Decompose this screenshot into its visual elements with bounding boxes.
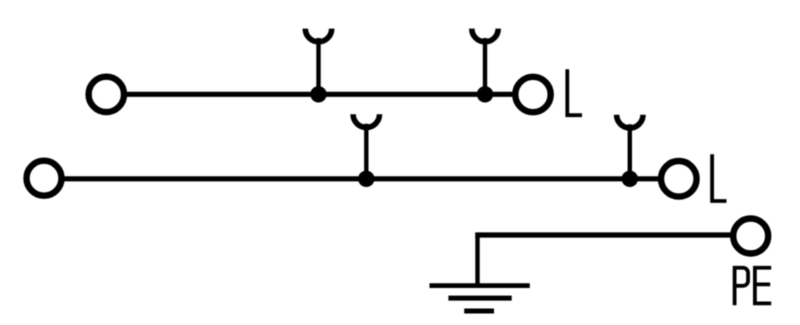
test socket TP1 — [305, 29, 331, 95]
junction dot row1 b — [477, 86, 493, 102]
junction dot row1 a — [310, 86, 326, 102]
terminal circle X3 (row 2 left) — [27, 161, 62, 196]
junction dot row2 b — [622, 171, 638, 187]
label PE — [735, 268, 772, 305]
junction dot row2 a — [358, 171, 374, 187]
label L (row 2) — [712, 154, 726, 201]
ground — [430, 286, 530, 311]
test socket TP2 — [472, 29, 498, 95]
terminal circle X4 (row 2 right) — [661, 161, 697, 197]
wire row 1 — [124, 92, 515, 97]
test socket TP3 — [353, 114, 379, 179]
wire row 2 — [62, 176, 662, 181]
terminal circle X2 (row 1 right) — [515, 77, 550, 112]
terminal circle X5 (PE) — [733, 219, 768, 254]
label L (row 1) — [567, 69, 582, 115]
terminal circle X1 (row 1 left) — [89, 77, 124, 112]
wire PE vertical — [475, 233, 479, 286]
test socket TP4 — [617, 115, 643, 179]
wire PE horizontal — [475, 232, 733, 237]
